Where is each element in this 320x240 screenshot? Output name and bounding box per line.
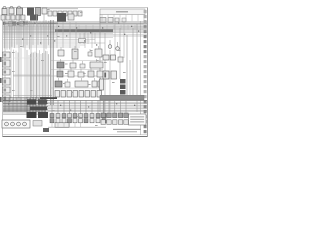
switch SW4 — [68, 114, 72, 118]
wire band tick BT12 — [36, 21, 38, 27]
motor M10 — [102, 119, 106, 123]
wire vertical V25 — [114, 22, 116, 55]
terminal T20 — [144, 105, 147, 108]
wire strip label underline — [48, 8, 78, 10]
connector J4 — [68, 14, 74, 20]
ground lug G2 — [0, 78, 2, 83]
wire cross H1 — [13, 74, 50, 76]
connector CR7 — [107, 120, 111, 125]
wire cluster h6 — [3, 104, 46, 106]
label text mark 14 — [77, 116, 80, 117]
connector CR9 — [118, 120, 122, 125]
wire bus drop BD11 — [32, 23, 34, 45]
terminal T12 — [144, 65, 147, 68]
wire vertical V8 — [50, 20, 52, 105]
wire vertical V4 — [24, 20, 26, 100]
terminal T9 — [144, 50, 147, 53]
wire right inner rail — [140, 21, 142, 135]
wire vertical V16 — [129, 60, 131, 100]
wire vertical V15 — [126, 35, 128, 100]
wire cluster h3 — [3, 100, 48, 102]
fuse F5 — [21, 15, 25, 20]
wire drop D11 — [36, 53, 38, 98]
wire vertical V11 — [99, 14, 101, 112]
label text mark 11 — [112, 82, 115, 83]
wire cluster v2 — [8, 98, 10, 112]
fuse FR3 — [67, 91, 72, 98]
fuse FR6 — [85, 91, 90, 98]
wire bottom bus BB6 — [3, 108, 147, 110]
label text mark 24 — [12, 71, 15, 72]
wire cross H5 — [50, 69, 103, 71]
terminal T4 — [144, 25, 147, 28]
wire cluster vr4 — [35, 97, 37, 113]
wire ground lead 5 — [74, 123, 76, 127]
wire right border — [147, 8, 149, 137]
wire cluster h5 — [3, 103, 48, 105]
wire cluster vr6 — [41, 98, 43, 113]
connector block CB3 cell — [4, 71, 7, 74]
wire vertical V3 — [18, 15, 20, 100]
label text mark 18 — [41, 60, 44, 61]
wire vertical V23 — [84, 32, 86, 48]
wire drop to M6 — [80, 100, 82, 114]
lamp L1 — [108, 45, 112, 49]
wire bus drop BD3 — [9, 23, 11, 50]
motor M4 — [68, 119, 72, 123]
wire drop to M9 — [97, 100, 99, 114]
wire cluster vr2 — [29, 98, 31, 113]
wire drop D7 — [30, 54, 32, 100]
connector J2 — [9, 8, 14, 14]
wire bottom bus BB2 — [3, 101, 147, 103]
ECU module U1 — [100, 9, 145, 15]
switch SW3 — [62, 114, 66, 118]
connector CR2 — [107, 113, 111, 118]
junction N11 — [22, 39, 23, 40]
wire drop D18 — [46, 51, 48, 103]
relay K8 — [95, 49, 102, 57]
wire bus B4 — [3, 25, 147, 27]
splice tick SP5 — [23, 21, 25, 24]
wire ground lead 3 — [63, 123, 65, 127]
wire band tick BT16 — [48, 21, 50, 27]
wire drop D3 — [17, 52, 19, 97]
junction N20 — [116, 103, 117, 104]
terminal T11 — [144, 60, 147, 63]
wire cross H6 — [13, 75, 105, 77]
wire bus drop BD1 — [4, 22, 6, 48]
junction N14 — [96, 44, 97, 45]
terminal T23 — [144, 120, 147, 123]
diode D1 — [88, 52, 92, 56]
wire drop to M2 — [57, 100, 59, 114]
junction N21 — [134, 105, 135, 106]
junction box JB2 — [38, 100, 47, 105]
wire band tick BT7 — [21, 21, 23, 27]
connector CR4 — [118, 113, 122, 118]
wire vertical V26 — [123, 22, 125, 58]
relay K9 — [57, 62, 64, 68]
module U3 — [75, 81, 88, 87]
wire vertical V14 — [119, 28, 121, 79]
connector CR5 — [124, 113, 128, 118]
label text mark 17 — [20, 46, 23, 47]
relay K2 — [27, 8, 34, 16]
wire tick TK22 — [85, 25, 87, 30]
connector pin P6 — [73, 11, 77, 16]
terminal T18 — [144, 95, 147, 98]
wire bottom bus BB7 — [3, 109, 147, 111]
wire stub above K9 — [60, 59, 62, 62]
wire tick TK3 — [87, 33, 89, 44]
wire drop D19 — [48, 54, 50, 98]
connector J11 — [100, 79, 104, 90]
indicator lamp IL2 — [11, 122, 15, 126]
wire stub above K11 — [70, 68, 72, 71]
fuse F3 — [11, 15, 15, 20]
switch SW7 — [84, 114, 88, 118]
wire band tick BT10 — [30, 21, 32, 27]
wire bus B9 — [3, 33, 147, 35]
wire ground lead 1 — [51, 123, 53, 127]
lamp L2 — [116, 47, 120, 51]
wire vertical V12 — [104, 33, 106, 112]
wire band tick BT6 — [18, 21, 20, 27]
terminal T1 — [144, 10, 147, 13]
terminal T10 — [144, 55, 147, 58]
wire bus B14 — [3, 42, 105, 44]
connector J3 — [42, 8, 47, 14]
wire bus B8 — [3, 32, 147, 34]
wire fine bus FB5 — [3, 28, 147, 30]
wire fine bus FB7 — [3, 31, 113, 33]
wire vertical V24 — [91, 32, 93, 48]
relay K13 — [97, 71, 103, 77]
relay coil circle A — [3, 6, 6, 9]
label text mark 7 — [71, 92, 74, 93]
junction N2 — [34, 23, 35, 24]
label caption line 1 — [113, 129, 141, 130]
wire band tick BT9 — [27, 21, 29, 27]
wire band tick BT8 — [24, 21, 26, 27]
connector pin P2 — [53, 11, 57, 16]
label text mark 4 — [74, 51, 77, 52]
wire ECU lead EL6 — [131, 15, 133, 22]
wire band tick BT13 — [39, 21, 41, 27]
fuse FR5 — [79, 91, 84, 98]
junction box JB3 — [30, 107, 47, 111]
junction N7 — [66, 35, 67, 36]
fuse FR8 — [97, 91, 102, 98]
motor M1 — [50, 119, 54, 123]
connector block CB6 — [3, 95, 11, 102]
wire cluster h1 — [3, 97, 48, 99]
wire drop D9 — [33, 52, 35, 103]
switch SW2 — [56, 114, 60, 118]
relay K7 — [72, 49, 78, 59]
junction N17 — [8, 103, 9, 104]
wire ground bus — [48, 126, 106, 128]
wire bus B12 — [3, 38, 95, 40]
relay coil circle B — [10, 6, 13, 9]
wire drop to M4 — [69, 100, 71, 114]
wire drop D10 — [34, 52, 36, 103]
connector block CB5 cell — [4, 89, 7, 92]
junction N9 — [118, 23, 119, 24]
wire drop to M7 — [85, 100, 87, 114]
connector J7 — [115, 18, 119, 22]
wire cluster vr5 — [38, 98, 40, 112]
motor M8 — [90, 119, 94, 123]
connector CR8 — [113, 120, 117, 125]
connector CR6 — [101, 120, 105, 125]
wire cluster h11 — [3, 112, 48, 114]
wire bottom bus BB4 — [3, 104, 147, 106]
connector block CB2 cell — [4, 62, 7, 66]
wire stub above F13 — [100, 78, 102, 81]
wire vertical V21 — [69, 22, 71, 48]
wire band tick BT1 — [3, 21, 5, 27]
motor M5 — [73, 119, 77, 123]
wire cross H7 — [50, 87, 100, 89]
terminal table row 3 — [130, 121, 144, 122]
label text mark 23 — [12, 52, 15, 53]
label text mark 1 — [65, 64, 68, 65]
junction N12 — [40, 42, 41, 43]
indicator lamp IL4 — [23, 122, 27, 126]
terminal T25 — [144, 130, 147, 133]
wire cross H3 — [13, 57, 40, 59]
connector pin P1 — [48, 11, 52, 16]
wire fine bus FB4 — [3, 26, 147, 28]
wire bus B2 — [3, 22, 147, 24]
wire stub above U2 — [96, 59, 98, 62]
motor M9 — [96, 119, 100, 123]
wire cluster h8 — [3, 107, 46, 109]
label text mark 13 — [52, 110, 55, 111]
wire cluster h4 — [3, 101, 46, 103]
splice tick SP1 — [13, 22, 17, 26]
switch SW6 — [79, 114, 83, 118]
fuse FR7 — [91, 91, 96, 98]
wire band tick BT11 — [33, 21, 35, 27]
label text mark 10 — [104, 62, 107, 63]
wire ECU lead EL2 — [107, 15, 109, 22]
wire stub above K14 — [58, 78, 60, 81]
label text mark 3 — [63, 83, 66, 84]
fuse F4 — [16, 15, 20, 20]
connector CR1 — [101, 113, 105, 118]
wire fine bus FB8 — [3, 33, 113, 35]
wire tick TK25 — [106, 25, 108, 30]
wire fine bus FB1 — [3, 21, 147, 23]
connector block CB4 — [3, 78, 11, 85]
relay K12 — [88, 71, 94, 77]
wire stub above F9 — [82, 61, 84, 64]
label text mark 22 — [118, 50, 121, 51]
connector block CB3 — [3, 69, 11, 75]
connector CR3 — [113, 113, 117, 118]
wire bottom border outer — [3, 136, 148, 138]
wire ECU lead EL1 — [101, 15, 103, 22]
splice tick SP2 — [26, 22, 29, 25]
wire bus drop BD4 — [11, 20, 13, 47]
fuse F7 — [20, 22, 24, 27]
wire bus drop BD15 — [48, 21, 50, 45]
relay K16 — [120, 85, 126, 90]
terminal T8 — [144, 45, 147, 48]
label text mark 15 — [95, 125, 98, 126]
fuse F9 — [80, 64, 85, 68]
fuse FR2 — [61, 91, 66, 98]
wire vertical V9 — [51, 20, 53, 105]
resistor pack RP1 — [55, 123, 69, 128]
wire tick TK23 — [92, 25, 94, 30]
wire drop to M5 — [74, 100, 76, 114]
wire vertical V18 — [136, 24, 138, 112]
wire stub above K7 — [74, 46, 76, 49]
relay K6 — [58, 50, 64, 56]
splice tick SP4 — [17, 22, 20, 25]
wire drop D4 — [20, 48, 22, 103]
wire bus drop BD10 — [29, 21, 31, 49]
wire ECU lead EL3 — [113, 15, 115, 22]
terminal T21 — [144, 110, 147, 113]
wire drop D13 — [39, 50, 41, 97]
wire tick TK21 — [78, 25, 80, 30]
wire bus drop BD7 — [20, 22, 22, 46]
connector pin P3 — [58, 11, 62, 16]
fuse F10 — [78, 72, 84, 77]
wire drop to M8 — [91, 100, 93, 114]
connector block CB6 cell — [4, 97, 7, 101]
wire drop CR4 — [120, 100, 122, 113]
junction N19 — [88, 106, 89, 107]
wire band tick BT14 — [42, 21, 44, 27]
splice block SB1 — [43, 128, 49, 132]
label text mark 21 — [88, 84, 91, 85]
label text mark 2 — [65, 73, 68, 74]
wire drop to M1 — [51, 100, 53, 114]
wire vertical V5 — [30, 20, 32, 102]
wire drop D12 — [37, 53, 39, 101]
wire cluster vr7 — [44, 98, 46, 113]
junction N13 — [84, 40, 85, 41]
wire stub above K8 — [98, 46, 100, 49]
connector pin P5 — [68, 11, 72, 16]
junction N23 — [30, 35, 31, 36]
wire drop to M3 — [63, 100, 65, 114]
wire drop D1 — [13, 50, 15, 101]
terminal table row 2 — [130, 119, 144, 120]
switch SW5 — [73, 114, 77, 118]
terminal T7 — [144, 40, 147, 43]
wire harness bundle — [100, 95, 144, 100]
terminal row TR2 — [38, 112, 48, 118]
wire vertical V7 — [43, 14, 45, 100]
wire stub above K13 — [99, 68, 101, 71]
wire bus B10 — [3, 35, 147, 37]
motor M3 — [62, 119, 66, 123]
wire band tick BT3 — [9, 21, 11, 27]
relay K15 — [120, 79, 126, 84]
terminal T6 — [144, 35, 147, 38]
junction N6 — [47, 35, 48, 36]
wire vertical V1 — [4, 14, 6, 100]
instrument cluster IC1 — [2, 120, 30, 128]
relay coil circle C — [18, 6, 21, 9]
wire bus B3 — [3, 24, 147, 26]
wire bus B15 — [3, 44, 85, 46]
wire bus drop BD14 — [45, 20, 47, 49]
wire band tick BT4 — [12, 21, 14, 27]
wire cluster h10 — [3, 110, 46, 112]
relay K17 — [120, 90, 126, 95]
terminal T15 — [144, 80, 147, 83]
wire bus B11 — [3, 37, 113, 39]
connector block CB1 — [3, 52, 11, 58]
wire fine bus FB2 — [3, 23, 147, 25]
junction N1 — [12, 23, 13, 24]
wire stub above K6 — [60, 47, 62, 50]
wire vertical V20 — [62, 22, 64, 48]
wire bus drop BD8 — [23, 22, 25, 47]
wire cluster v5 — [20, 98, 22, 112]
wire bus drop BD13 — [40, 22, 42, 44]
module U2 — [90, 62, 103, 68]
fuse F2 — [6, 15, 10, 20]
wire cluster h7 — [3, 106, 48, 108]
wire ECU lead EL7 — [137, 15, 139, 22]
junction N3 — [58, 26, 59, 27]
label text mark 16 — [30, 90, 33, 91]
junction box JB1 — [27, 100, 36, 105]
label text mark 8 — [47, 9, 50, 10]
wire drop D5 — [26, 50, 28, 99]
junction N10 — [131, 26, 132, 27]
switch SW1 — [50, 114, 54, 118]
switch SW8 — [90, 114, 94, 118]
label text mark 19 — [57, 36, 60, 37]
wire stub above F10 — [80, 69, 82, 72]
label text mark 6 — [83, 73, 86, 74]
connector pin P4 — [63, 11, 67, 16]
wire tick TK2 — [83, 33, 85, 44]
relay K14 — [55, 81, 62, 87]
relay box RB1 — [33, 121, 42, 127]
wire bus drop BD5 — [14, 24, 16, 48]
connector block CB4 cell — [4, 80, 7, 84]
wire left border — [2, 8, 4, 137]
connector J10 — [111, 71, 117, 79]
label caption line 2 — [117, 131, 137, 132]
wire stub above K12 — [90, 68, 92, 71]
wire vertical V2 — [10, 14, 12, 98]
wire ground lead 2 — [57, 123, 59, 127]
wire top border — [3, 7, 148, 9]
wire tick TK27 — [120, 25, 122, 30]
terminal T2 — [144, 15, 147, 18]
junction N16 — [138, 31, 139, 32]
label text mark 5 — [90, 50, 93, 51]
wire ground lead 4 — [69, 123, 71, 127]
label text mark 12 — [123, 72, 126, 73]
wire bus drop BD12 — [37, 23, 39, 45]
terminal T3 — [144, 20, 147, 23]
wire drop D14 — [40, 54, 42, 100]
fuse F11 — [65, 82, 70, 87]
